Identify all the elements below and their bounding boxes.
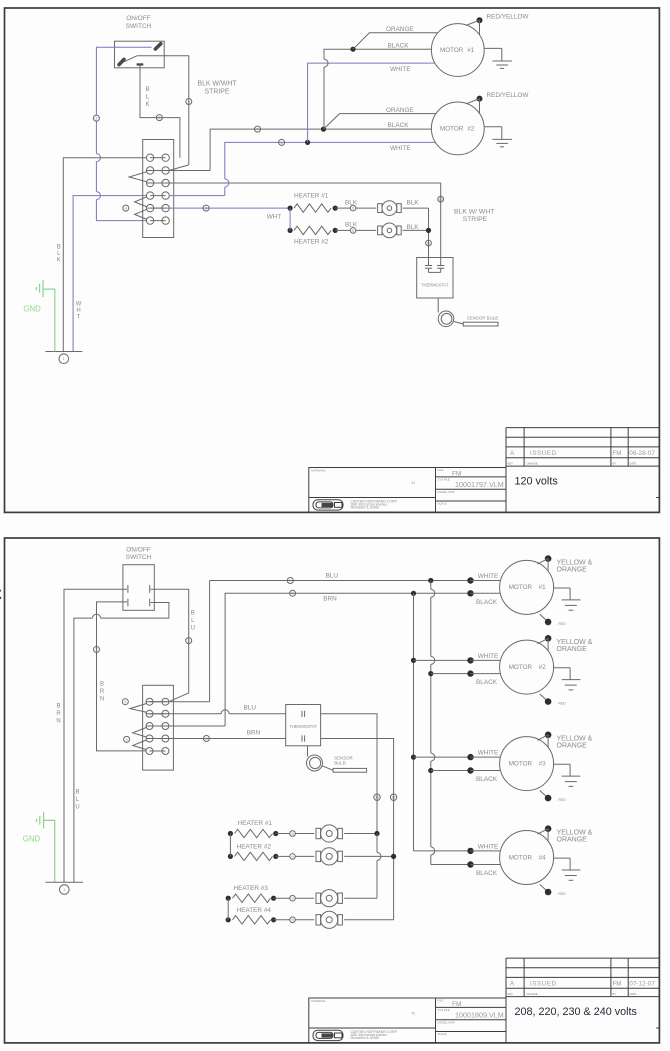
svg-text:FILE: FILE — [438, 999, 444, 1003]
svg-text:HEATER #4: HEATER #4 — [237, 907, 272, 914]
svg-text:MOTOR: MOTOR — [509, 760, 533, 767]
svg-text:H: H — [76, 308, 80, 314]
svg-text:BLACK: BLACK — [476, 870, 498, 877]
svg-text:K: K — [57, 258, 61, 264]
svg-text:DATE: DATE — [630, 461, 637, 465]
svg-text:U: U — [191, 625, 195, 631]
svg-text:Mundelein IL 60060: Mundelein IL 60060 — [351, 1036, 380, 1040]
svg-text:MOTOR: MOTOR — [440, 47, 464, 54]
svg-text:HEATER #2: HEATER #2 — [237, 843, 272, 850]
svg-text:WHITE: WHITE — [478, 653, 499, 660]
svg-text:BLK: BLK — [345, 222, 358, 229]
svg-text:SENSOR BULB: SENSOR BULB — [467, 315, 498, 320]
svg-text:RED/YELLOW: RED/YELLOW — [487, 92, 530, 99]
svg-text:ORANGE: ORANGE — [386, 107, 414, 114]
svg-text:ORANGE: ORANGE — [557, 566, 588, 573]
svg-text:06-28-07: 06-28-07 — [629, 450, 655, 457]
svg-text:ISSUED: ISSUED — [530, 450, 557, 457]
svg-text:MOTOR: MOTOR — [509, 854, 533, 861]
svg-text:BLACK: BLACK — [476, 776, 498, 783]
svg-text:FM: FM — [452, 1001, 462, 1008]
svg-text:U: U — [75, 804, 79, 810]
svg-text:WHITE: WHITE — [390, 66, 411, 73]
svg-text:STRIPE: STRIPE — [463, 216, 488, 223]
svg-text:#1: #1 — [412, 1012, 416, 1016]
svg-text:#2: #2 — [467, 126, 475, 133]
svg-text:ORANGE: ORANGE — [386, 26, 414, 33]
svg-text:SENSOR: SENSOR — [334, 755, 353, 760]
svg-text:ON/OFF: ON/OFF — [126, 546, 151, 553]
svg-text:BY: BY — [613, 992, 617, 996]
svg-text:CHANGE: CHANGE — [527, 461, 538, 465]
svg-text:#1: #1 — [539, 584, 547, 591]
svg-text:SWITCH: SWITCH — [126, 23, 152, 30]
svg-text:#4: #4 — [539, 854, 547, 861]
svg-text:R: R — [56, 711, 61, 717]
svg-text:10001797.VLM: 10001797.VLM — [455, 480, 504, 489]
svg-text:WHT: WHT — [267, 214, 282, 221]
svg-text:SCALE: SCALE — [438, 502, 447, 506]
svg-text:B: B — [75, 790, 79, 796]
svg-text:#2: #2 — [539, 664, 547, 671]
svg-text:C: C — [0, 584, 2, 606]
svg-text:W: W — [76, 302, 82, 308]
svg-text:REV: REV — [508, 992, 514, 996]
svg-text:BLU: BLU — [244, 705, 257, 712]
svg-text:BLK W/WHT: BLK W/WHT — [197, 81, 237, 88]
svg-text:ORANGE: ORANGE — [557, 743, 588, 750]
svg-text:BLACK: BLACK — [476, 679, 498, 686]
svg-text:ISSUED: ISSUED — [530, 981, 557, 988]
svg-text:MATERIAL: MATERIAL — [311, 999, 326, 1003]
svg-text:B: B — [56, 704, 60, 710]
svg-text:BLK: BLK — [345, 199, 358, 206]
svg-text:STRIPE: STRIPE — [205, 89, 230, 96]
svg-text:WHITE: WHITE — [478, 750, 499, 757]
svg-text:N: N — [100, 696, 104, 702]
svg-text:SCALE: SCALE — [438, 1032, 447, 1036]
svg-text:BY: BY — [613, 461, 617, 465]
svg-text:MOTOR: MOTOR — [509, 584, 533, 591]
svg-text:BULB: BULB — [334, 761, 346, 766]
svg-text:#1: #1 — [412, 481, 416, 485]
svg-text:12: 12 — [391, 795, 396, 800]
svg-text:RED: RED — [558, 702, 566, 706]
svg-text:ON/OFF: ON/OFF — [126, 15, 151, 22]
svg-text:RED: RED — [558, 622, 566, 626]
svg-text:BLACK: BLACK — [388, 42, 410, 49]
svg-text:HEATER #3: HEATER #3 — [234, 885, 269, 892]
svg-text:GND: GND — [23, 835, 41, 844]
svg-text:BLACK: BLACK — [476, 599, 498, 606]
svg-text:BRN: BRN — [247, 729, 261, 736]
svg-text:MODEL SHIP: MODEL SHIP — [438, 1020, 455, 1024]
svg-text:T: T — [77, 315, 81, 321]
svg-text:ORANGE: ORANGE — [557, 646, 588, 653]
svg-text:DATE: DATE — [630, 992, 637, 996]
svg-text:GND: GND — [23, 305, 41, 314]
svg-text:L: L — [146, 94, 150, 101]
svg-text:REV: REV — [508, 461, 514, 465]
svg-text:HEATER #1: HEATER #1 — [294, 192, 329, 199]
svg-text:R: R — [100, 689, 105, 695]
svg-text:CHANGE: CHANGE — [527, 992, 538, 996]
svg-text:BLU: BLU — [326, 573, 339, 580]
svg-text:BLK W/ WHT: BLK W/ WHT — [454, 208, 494, 215]
svg-text:FM: FM — [452, 471, 462, 478]
svg-text:07-12-07: 07-12-07 — [629, 980, 655, 987]
svg-text:10001809.VLM: 10001809.VLM — [455, 1011, 504, 1020]
svg-text:FM: FM — [613, 981, 622, 988]
svg-text:BLACK: BLACK — [388, 122, 410, 129]
svg-text:HEATER #1: HEATER #1 — [238, 820, 273, 827]
svg-text:N: N — [56, 718, 60, 724]
svg-text:WHITE: WHITE — [478, 573, 499, 580]
svg-text:RED/YELLOW: RED/YELLOW — [487, 14, 530, 21]
svg-text:Mundelein IL 60060: Mundelein IL 60060 — [351, 506, 380, 510]
svg-text:MATERIAL: MATERIAL — [311, 469, 326, 473]
svg-text:WHITE: WHITE — [390, 145, 411, 152]
svg-text:HEATER #2: HEATER #2 — [294, 239, 329, 246]
svg-text:THERMOSTAT: THERMOSTAT — [421, 283, 449, 288]
svg-text:208, 220, 230 & 240 volts: 208, 220, 230 & 240 volts — [515, 1006, 638, 1018]
svg-text:MODEL SHIP: MODEL SHIP — [438, 490, 455, 494]
svg-text:#3: #3 — [539, 760, 547, 767]
svg-text:#1: #1 — [467, 47, 475, 54]
svg-text:RED: RED — [558, 892, 566, 896]
svg-text:B: B — [191, 611, 195, 617]
svg-text:THERMOSTAT: THERMOSTAT — [289, 724, 317, 729]
svg-text:BLK: BLK — [407, 199, 420, 206]
svg-text:ORANGE: ORANGE — [557, 837, 588, 844]
svg-text:SYS FILE: SYS FILE — [438, 477, 450, 481]
svg-text:SYS FILE: SYS FILE — [438, 1008, 450, 1012]
svg-text:120 volts: 120 volts — [515, 475, 559, 487]
svg-text:B: B — [57, 245, 61, 251]
svg-text:RED: RED — [558, 798, 566, 802]
svg-text:MOTOR: MOTOR — [440, 126, 464, 133]
svg-text:FILE: FILE — [438, 468, 444, 472]
svg-text:BRN: BRN — [323, 596, 337, 603]
svg-text:FM: FM — [613, 450, 622, 457]
svg-text:MOTOR: MOTOR — [509, 664, 533, 671]
svg-text:SWITCH: SWITCH — [126, 554, 152, 561]
svg-text:B: B — [100, 682, 104, 688]
svg-text:WHITE: WHITE — [478, 843, 499, 850]
svg-text:12: 12 — [438, 197, 443, 202]
svg-text:BLK: BLK — [407, 224, 420, 231]
svg-text:B: B — [146, 86, 150, 93]
